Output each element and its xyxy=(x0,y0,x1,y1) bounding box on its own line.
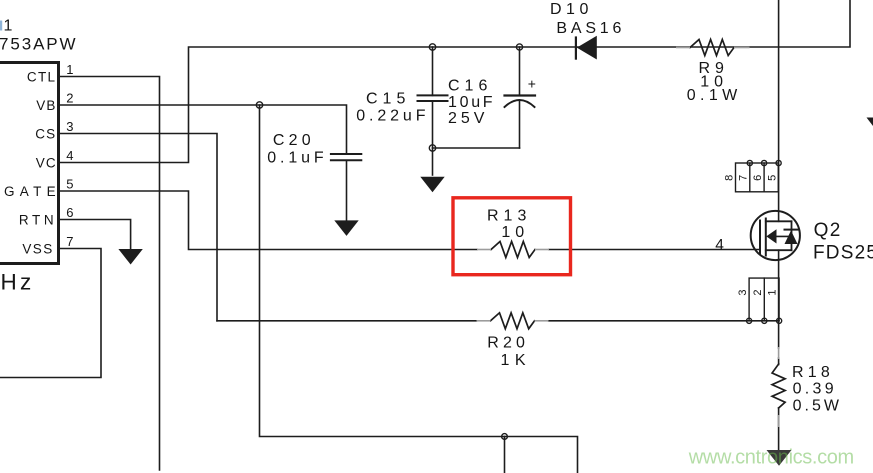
svg-text:0.1uF: 0.1uF xyxy=(267,150,327,167)
svg-text:BAS16: BAS16 xyxy=(556,20,625,37)
svg-text:5: 5 xyxy=(66,176,73,191)
svg-text:753APW: 753APW xyxy=(0,35,78,54)
svg-text:C20: C20 xyxy=(273,132,315,149)
svg-text:6: 6 xyxy=(752,175,764,181)
svg-text:C15: C15 xyxy=(366,91,410,108)
svg-text:3: 3 xyxy=(737,290,749,296)
svg-text:C16: C16 xyxy=(448,78,492,95)
svg-text:R18: R18 xyxy=(792,364,834,381)
svg-text:www.cntronics.com: www.cntronics.com xyxy=(688,446,854,468)
svg-text:CTL: CTL xyxy=(27,70,56,85)
svg-text:1K: 1K xyxy=(501,352,532,369)
svg-text:VB: VB xyxy=(36,98,56,113)
svg-text:1: 1 xyxy=(66,62,73,77)
svg-text:GATE: GATE xyxy=(4,184,61,199)
svg-text:2: 2 xyxy=(66,90,73,105)
svg-text:0.22uF: 0.22uF xyxy=(356,108,429,125)
svg-text:0.39: 0.39 xyxy=(793,381,837,398)
svg-text:1: 1 xyxy=(4,18,13,35)
svg-text:3: 3 xyxy=(66,119,73,134)
svg-text:CS: CS xyxy=(35,127,56,142)
svg-text:7: 7 xyxy=(738,175,750,181)
svg-text:7: 7 xyxy=(66,234,73,249)
svg-text:+: + xyxy=(528,76,536,92)
svg-text:VSS: VSS xyxy=(22,242,53,257)
svg-text:10uF: 10uF xyxy=(448,94,495,111)
svg-text:R13: R13 xyxy=(487,208,531,225)
svg-text:R20: R20 xyxy=(487,335,529,352)
svg-text:VC: VC xyxy=(36,156,57,171)
svg-text:0.5W: 0.5W xyxy=(793,398,842,415)
svg-text:2: 2 xyxy=(752,290,764,296)
svg-text:25V: 25V xyxy=(448,110,488,127)
svg-text:RTN: RTN xyxy=(19,213,57,228)
svg-text:4: 4 xyxy=(66,148,73,163)
svg-text:8: 8 xyxy=(723,175,735,181)
svg-text:Hz: Hz xyxy=(1,270,35,295)
svg-text:4: 4 xyxy=(715,237,724,254)
svg-text:Q2: Q2 xyxy=(814,220,842,241)
svg-text:0.1W: 0.1W xyxy=(687,87,742,104)
svg-text:6: 6 xyxy=(66,205,73,220)
svg-text:10: 10 xyxy=(501,224,529,241)
svg-text:5: 5 xyxy=(766,175,778,181)
svg-text:FDS258: FDS258 xyxy=(813,243,873,264)
svg-text:D10: D10 xyxy=(550,1,593,18)
svg-text:1: 1 xyxy=(767,290,779,296)
